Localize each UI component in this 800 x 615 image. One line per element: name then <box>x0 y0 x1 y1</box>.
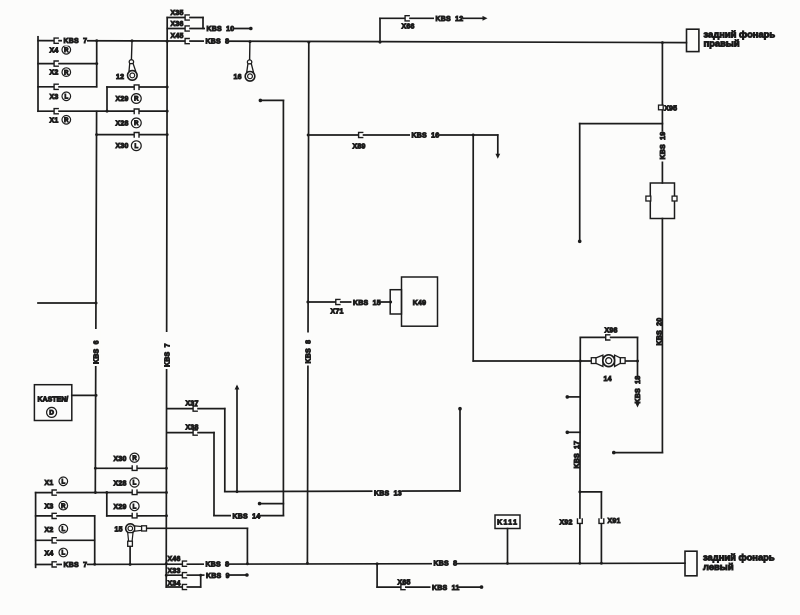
svg-text:X91: X91 <box>608 518 621 525</box>
svg-text:KASTEN/: KASTEN/ <box>38 397 69 404</box>
svg-text:KBS 9: KBS 9 <box>206 573 230 580</box>
svg-text:L: L <box>134 144 138 150</box>
svg-text:L: L <box>133 481 137 487</box>
svg-text:K49: K49 <box>413 300 426 307</box>
svg-text:R: R <box>134 121 139 127</box>
svg-text:X65: X65 <box>398 580 411 587</box>
svg-text:KBS 8: KBS 8 <box>306 340 313 364</box>
svg-text:X33: X33 <box>168 568 181 575</box>
svg-text:R: R <box>134 97 139 103</box>
svg-text:R: R <box>64 70 69 76</box>
svg-text:KBS 6: KBS 6 <box>93 340 100 364</box>
svg-text:L: L <box>133 504 137 510</box>
svg-text:X37: X37 <box>186 400 199 407</box>
svg-text:14: 14 <box>604 376 612 383</box>
svg-text:KBS 13: KBS 13 <box>374 490 402 497</box>
svg-text:X30: X30 <box>116 143 129 150</box>
svg-text:R: R <box>64 48 69 54</box>
svg-text:KBS 12: KBS 12 <box>436 16 464 23</box>
svg-text:KBS 7: KBS 7 <box>165 343 172 367</box>
svg-text:X92: X92 <box>560 519 573 526</box>
svg-text:KBS 17: KBS 17 <box>574 441 581 469</box>
svg-text:R: R <box>61 504 66 510</box>
svg-text:KBS 8: KBS 8 <box>206 562 230 569</box>
svg-text:KBS 14: KBS 14 <box>233 513 261 520</box>
svg-text:X29: X29 <box>114 504 127 511</box>
svg-text:X3: X3 <box>50 94 59 101</box>
svg-text:L: L <box>61 551 65 557</box>
svg-text:15: 15 <box>115 527 123 534</box>
svg-text:KBS 11: KBS 11 <box>432 585 459 592</box>
svg-text:12: 12 <box>116 74 124 81</box>
svg-text:KBS 7: KBS 7 <box>64 562 88 569</box>
svg-text:L: L <box>61 527 65 533</box>
svg-text:X4: X4 <box>45 551 54 558</box>
svg-text:KBS 10: KBS 10 <box>207 26 235 33</box>
svg-text:L: L <box>64 94 68 100</box>
svg-text:X46: X46 <box>168 556 181 563</box>
svg-text:R: R <box>132 456 137 462</box>
svg-text:X95: X95 <box>664 105 677 112</box>
svg-text:X28: X28 <box>114 481 127 488</box>
svg-text:KBS 18: KBS 18 <box>635 376 642 404</box>
svg-text:KBS 20: KBS 20 <box>656 318 663 346</box>
svg-text:KBS 8: KBS 8 <box>434 561 458 568</box>
svg-text:L: L <box>61 479 65 485</box>
svg-text:K111: K111 <box>497 520 518 527</box>
svg-text:X71: X71 <box>331 309 344 316</box>
svg-text:X66: X66 <box>402 23 415 30</box>
svg-text:X45: X45 <box>171 33 184 40</box>
svg-text:X2: X2 <box>50 70 59 77</box>
svg-text:X4: X4 <box>50 47 59 54</box>
svg-text:X36: X36 <box>171 21 184 28</box>
svg-text:KBS 19: KBS 19 <box>660 132 667 160</box>
svg-text:левый: левый <box>703 561 734 572</box>
svg-text:X1: X1 <box>45 480 54 487</box>
svg-text:KBS 7: KBS 7 <box>64 38 88 45</box>
svg-text:KBS 8: KBS 8 <box>206 39 230 46</box>
svg-text:X30: X30 <box>114 456 127 463</box>
svg-text:X38: X38 <box>186 424 199 431</box>
svg-text:X98: X98 <box>605 327 618 334</box>
svg-text:правый: правый <box>704 38 740 49</box>
svg-text:X34: X34 <box>168 580 181 587</box>
svg-text:X89: X89 <box>353 144 366 151</box>
svg-text:X2: X2 <box>45 527 54 534</box>
svg-text:X3: X3 <box>45 504 54 511</box>
svg-text:KBS 16: KBS 16 <box>412 133 440 140</box>
svg-text:X1: X1 <box>50 117 59 124</box>
svg-text:X28: X28 <box>116 120 129 127</box>
svg-text:KBS 15: KBS 15 <box>353 300 381 307</box>
svg-text:X29: X29 <box>116 96 129 103</box>
svg-text:D: D <box>49 410 54 417</box>
svg-text:R: R <box>64 118 69 124</box>
svg-text:X35: X35 <box>171 10 184 17</box>
svg-text:16: 16 <box>234 74 242 81</box>
